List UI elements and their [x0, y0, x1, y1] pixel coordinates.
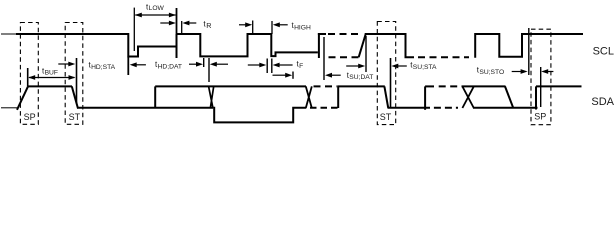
- reference line tLOW left bracket: [133, 8, 135, 51]
- svg-text:BUF: BUF: [45, 70, 58, 77]
- dimension tHIGH right arrow: [273, 22, 288, 27]
- reference line tHD;DAT right: [208, 58, 210, 82]
- wire SCL slow rising edge (middle): [359, 34, 366, 57]
- reference line tSU;STA left (SCL rise corner): [365, 36, 367, 72]
- wire SDA high segment: [425, 85, 434, 87]
- wire SCL dashed low (undefined region): [329, 56, 360, 58]
- wire SDA low after repeated START: [388, 107, 431, 109]
- svg-text:LOW: LOW: [149, 5, 165, 12]
- wire SDA high between SP and ST: [28, 85, 73, 87]
- wire SDA START falling edge (ST): [72, 86, 78, 108]
- wire SDA STOP rising edge (right SP): [535, 86, 537, 109]
- wire SDA repeated START falling edge: [384, 86, 388, 107]
- wire SDA low-low rail: [213, 108, 306, 123]
- wire SDA dashed low 2: [434, 107, 458, 109]
- dimension tR left arrow: [160, 21, 176, 26]
- crossover X3: [462, 86, 473, 108]
- dashed box ST (left): [65, 23, 83, 125]
- wire SDA undefined-close vertical: [337, 86, 339, 108]
- wire SDA final high: [536, 85, 582, 87]
- svg-text:F: F: [299, 63, 303, 70]
- label tSU;DAT: [347, 71, 374, 81]
- label ST (middle box): [380, 112, 392, 122]
- reference line tHIGH right: [271, 21, 273, 34]
- wire SDA high before repeated START: [337, 85, 385, 87]
- reference line tLOW right bracket / SCL rise 1: [176, 8, 178, 58]
- wire SDA STOP rising edge (SP): [17, 86, 28, 109]
- label tSU;STA: [410, 61, 437, 71]
- wire SCL high to 4th fall: [365, 34, 414, 57]
- svg-text:SCL: SCL: [593, 45, 614, 57]
- reference line tSU;DAT left (SDA data edge): [292, 72, 294, 79]
- label tF: [297, 60, 304, 70]
- dimension tLOW arrow: [135, 13, 176, 18]
- wire SDA low rail 3: [473, 107, 538, 109]
- svg-text:SU;STO: SU;STO: [479, 69, 504, 76]
- dimension tR right arrow: [182, 21, 196, 26]
- wire SDA start-edge reference line: [76, 58, 78, 103]
- wire SDA dashed high 2: [439, 85, 459, 87]
- label tLOW: [146, 3, 165, 13]
- dashed box SP (right): [531, 29, 551, 125]
- wire SDA dashed low (undefined): [310, 107, 338, 109]
- svg-text:HIGH: HIGH: [294, 24, 311, 31]
- label SP (right box): [534, 112, 546, 122]
- dimension tSU;STA left arrow: [346, 64, 365, 69]
- dimension tHD;DAT right arrow: [210, 62, 228, 67]
- label ST (left box): [69, 112, 81, 122]
- label tBUF: [42, 67, 58, 77]
- reference line tF left: [266, 59, 268, 74]
- svg-text:SDA: SDA: [591, 96, 614, 108]
- reference line tSU;STO left (SCL rise): [528, 28, 530, 75]
- wire SDA high-rail fall before STOP: [505, 86, 513, 107]
- svg-text:ST: ST: [380, 112, 392, 122]
- wire SCL high lead-in (thin): [1, 33, 17, 35]
- wire SDA rise reference (tSU;STO): [540, 67, 542, 107]
- wire SDA fall reference line (tSU;STA): [390, 58, 392, 107]
- reference line tBUF left: [27, 68, 29, 86]
- svg-text:SP: SP: [24, 112, 36, 122]
- reference line tF right: [271, 59, 273, 74]
- dimension tHD;STA left arrow: [58, 62, 75, 67]
- wire SDA high rail 1: [155, 85, 306, 87]
- wire SDA low rail: [77, 107, 213, 109]
- dimension tHD;DAT left arrow: [189, 62, 203, 67]
- wire SCL clock pulse (right): [475, 34, 583, 58]
- reference line tSU;DAT (SCL rise): [323, 37, 325, 80]
- wire SCL dashed high (undefined region): [328, 33, 362, 35]
- reference line tHD;DAT left: [203, 58, 205, 67]
- label SCL: [593, 45, 614, 57]
- svg-text:ST: ST: [69, 112, 81, 122]
- label tHIGH: [292, 21, 311, 31]
- dimension tSU;DAT right arrow: [325, 73, 341, 78]
- dimension tSU;STA right arrow: [391, 64, 407, 69]
- label tSU;STO: [477, 66, 504, 76]
- wire SCL fall (START) reference extension: [127, 57, 129, 76]
- wire SDA data rise: [154, 86, 156, 107]
- dimension tSU;STO left arrow: [512, 69, 528, 74]
- wire SCL dashed low (right): [418, 56, 469, 58]
- crossover X2: [306, 86, 312, 108]
- wire SDA dashed high (undefined): [314, 85, 338, 87]
- wire SDA data rise 2: [424, 86, 426, 109]
- wire SDA high rail 2: [462, 85, 506, 87]
- wire SCL main trace: [16, 34, 326, 58]
- svg-text:R: R: [206, 21, 211, 30]
- dimension tBUF arrow: [28, 75, 75, 80]
- crossover X1: [209, 86, 214, 107]
- dimension tSU;DAT left arrow: [273, 73, 293, 78]
- dimension tF left arrow: [248, 63, 266, 68]
- dimension tSU;STO right arrow: [541, 69, 553, 74]
- svg-text:SU;DAT: SU;DAT: [349, 74, 373, 81]
- label SP (left box): [24, 112, 36, 122]
- label tHD;DAT: [155, 60, 182, 70]
- label tR: [203, 20, 211, 31]
- dashed box SP (left): [20, 23, 38, 125]
- svg-text:SU;STA: SU;STA: [413, 64, 437, 71]
- reference line tR right: [181, 21, 183, 34]
- svg-text:SP: SP: [534, 112, 546, 122]
- dashed box ST (middle): [377, 22, 395, 125]
- svg-text:HD;DAT: HD;DAT: [158, 63, 182, 70]
- dimension tF right arrow: [273, 63, 293, 68]
- dimension tHIGH left arrow: [239, 22, 252, 27]
- svg-text:HD;STA: HD;STA: [91, 64, 116, 71]
- label tHD;STA: [89, 61, 116, 71]
- dimension tHD;STA right arrow: [130, 62, 146, 67]
- label SDA: [591, 96, 614, 108]
- wire SDA low lead-in (thin): [1, 107, 17, 109]
- reference line tHIGH left: [252, 21, 254, 35]
